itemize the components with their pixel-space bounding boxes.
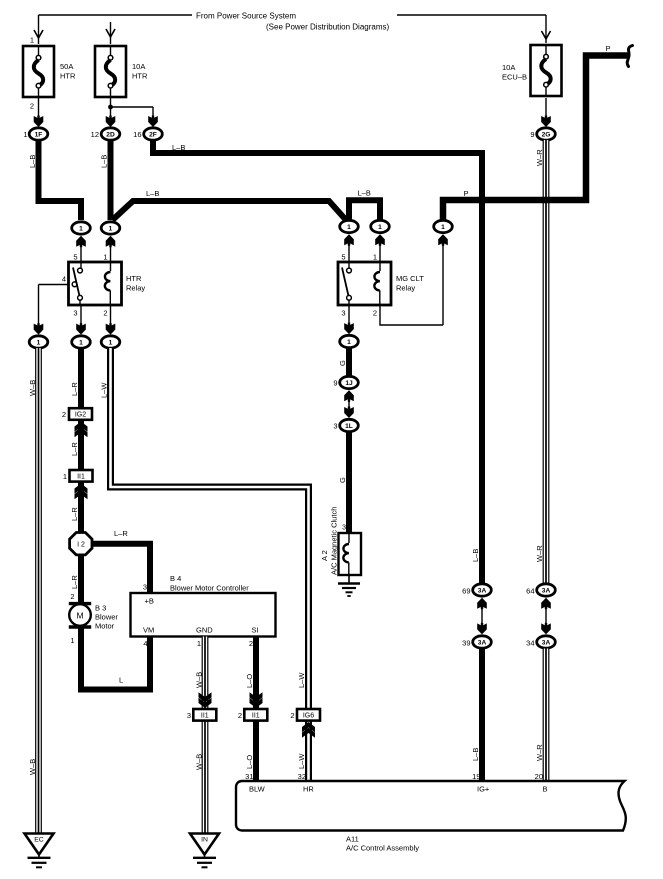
svg-text:Blower: Blower xyxy=(95,613,118,622)
svg-text:B 4: B 4 xyxy=(170,574,181,583)
svg-text:L–W: L–W xyxy=(100,382,109,398)
label P top xyxy=(605,44,610,53)
svg-text:P: P xyxy=(463,189,468,198)
svg-text:1: 1 xyxy=(373,253,377,262)
connector 2F pin 16 xyxy=(133,128,162,140)
wire W-R 34 to B xyxy=(535,545,546,781)
svg-text:1L: 1L xyxy=(345,423,353,430)
svg-text:B 3: B 3 xyxy=(95,604,106,613)
svg-text:GND: GND xyxy=(196,626,213,635)
svg-text:69: 69 xyxy=(462,587,470,596)
svg-text:A/C Control Assembly: A/C Control Assembly xyxy=(346,844,419,853)
svg-text:5: 5 xyxy=(73,253,77,262)
svg-text:W–R: W–R xyxy=(535,744,544,761)
wire L-R II1 to I2 xyxy=(70,482,81,534)
wire L blower motor to VM xyxy=(70,627,150,690)
wire L-R I2 to blower motor xyxy=(70,554,81,604)
wire HTR pin 2 stub xyxy=(110,305,112,332)
svg-text:HTR: HTR xyxy=(60,72,76,81)
wire L-W HTR to IG6 and HR xyxy=(100,348,309,781)
label From Power Source System xyxy=(196,12,296,21)
ground below magnetic clutch xyxy=(338,575,360,596)
wire L-B diagonal branch to MG CLT relay xyxy=(113,189,347,220)
wire W-R mid label xyxy=(0,0,1,1)
arrow into 1L xyxy=(344,407,354,419)
svg-text:G: G xyxy=(338,360,347,366)
svg-text:2: 2 xyxy=(70,592,74,601)
svg-text:W–R: W–R xyxy=(535,149,544,166)
arrow into connector 2D xyxy=(106,116,116,128)
connector 2G pin 9 xyxy=(530,128,555,140)
svg-text:9: 9 xyxy=(333,379,337,388)
node 1 to G wire xyxy=(340,335,359,347)
connector 64 3A xyxy=(526,584,555,596)
svg-text:Relay: Relay xyxy=(396,284,415,293)
wire W-B GND to ground IN xyxy=(195,637,206,834)
wire L-O SI to BLW xyxy=(245,637,256,782)
svg-text:II1: II1 xyxy=(77,473,85,480)
svg-text:I 2: I 2 xyxy=(77,542,85,549)
svg-text:1: 1 xyxy=(378,224,382,231)
wire HTR pin 3 stub xyxy=(80,305,82,332)
node 1 above HTR relay pin 1 xyxy=(101,222,120,262)
svg-text:10A: 10A xyxy=(132,62,145,71)
wire P from hook to MG CLT node xyxy=(443,56,629,221)
arrow into node G xyxy=(344,323,354,335)
svg-text:34: 34 xyxy=(526,639,534,648)
assembly A11 A/C Control Assembly xyxy=(236,781,626,853)
svg-text:2: 2 xyxy=(290,711,294,720)
svg-text:5: 5 xyxy=(341,253,345,262)
svg-text:1: 1 xyxy=(109,340,113,347)
label P at relay xyxy=(463,189,468,198)
arrow into 34 xyxy=(541,623,551,635)
header power source line right segment xyxy=(397,14,546,16)
svg-text:1: 1 xyxy=(441,224,445,231)
svg-text:L–B: L–B xyxy=(28,155,37,168)
fuse 10A HTR pin stub and junction xyxy=(108,97,113,121)
wire L-B from 2F to connector 69 xyxy=(153,140,482,585)
svg-text:P: P xyxy=(605,44,610,53)
node 1 above HTR relay pin 5 xyxy=(72,222,91,262)
svg-text:32: 32 xyxy=(298,772,306,781)
node 1 above MG CLT relay pin 1 xyxy=(371,220,390,262)
svg-text:1: 1 xyxy=(23,130,27,139)
arrow up into 64 xyxy=(541,598,551,610)
arrow into node W-B xyxy=(34,323,44,335)
arrow into junction II1 lower-left xyxy=(199,692,212,708)
controller B4 Blower Motor Controller xyxy=(131,574,276,637)
arrow up into II1 xyxy=(75,484,88,500)
svg-text:50A: 50A xyxy=(60,62,73,71)
svg-text:W–R: W–R xyxy=(535,545,544,562)
svg-text:2: 2 xyxy=(103,309,107,318)
node 1 for P wire xyxy=(434,220,453,325)
svg-text:II1: II1 xyxy=(252,712,260,719)
svg-text:W–B: W–B xyxy=(28,759,37,775)
svg-text:L–B: L–B xyxy=(100,155,109,168)
relay MG CLT xyxy=(338,253,424,318)
svg-text:IG2: IG2 xyxy=(75,412,86,419)
wire L-B 39 to IG+ xyxy=(471,549,482,781)
svg-text:SI: SI xyxy=(252,626,259,635)
svg-text:3: 3 xyxy=(187,711,191,720)
wire between 1J and 1L xyxy=(348,399,350,409)
wire G 1L to magnetic clutch xyxy=(338,432,349,533)
arrow into node L-W xyxy=(106,323,116,335)
arrow up into 69 xyxy=(477,598,487,610)
svg-text:4: 4 xyxy=(143,639,147,648)
junction II1 pin 2 xyxy=(238,709,267,721)
svg-text:L–O: L–O xyxy=(245,755,254,769)
svg-text:2: 2 xyxy=(62,410,66,419)
svg-text:2G: 2G xyxy=(542,132,551,139)
arrow into node L-R xyxy=(76,323,86,335)
wire MG CLT pin 2 to P node xyxy=(380,305,443,325)
connector 1J pin 9 xyxy=(333,376,358,388)
svg-text:L–R: L–R xyxy=(70,575,79,589)
svg-text:L: L xyxy=(119,676,123,685)
svg-text:MG CLT: MG CLT xyxy=(396,274,424,283)
ground EC xyxy=(25,834,54,868)
wire feed to fuse 50A with arrow xyxy=(30,15,43,45)
wire L-R IG2 to II1 xyxy=(70,420,81,470)
svg-text:IG+: IG+ xyxy=(477,785,490,794)
svg-text:W–B: W–B xyxy=(195,672,204,688)
svg-text:1F: 1F xyxy=(35,132,43,139)
arrow up into 1J xyxy=(344,390,354,402)
svg-text:L–R: L–R xyxy=(70,507,79,521)
junction IG2 pin 2 xyxy=(62,408,92,420)
svg-text:1: 1 xyxy=(63,472,67,481)
svg-text:W–B: W–B xyxy=(195,754,204,770)
junction IG6 pin 2 xyxy=(290,709,320,721)
fuse ECU-B pin stub xyxy=(545,98,547,121)
arrow into junction II1 lower-mid xyxy=(250,692,263,708)
svg-text:2D: 2D xyxy=(106,132,115,139)
svg-text:3: 3 xyxy=(342,525,346,532)
svg-text:9: 9 xyxy=(530,130,534,139)
ground IN xyxy=(190,834,219,868)
svg-text:3A: 3A xyxy=(542,640,551,647)
svg-text:M: M xyxy=(76,611,83,621)
fuse 50A pin 2 stub xyxy=(30,97,39,121)
svg-text:1: 1 xyxy=(347,339,351,346)
relay HTR xyxy=(62,253,146,318)
svg-text:Blower Motor Controller: Blower Motor Controller xyxy=(170,584,249,593)
junction II1 pin 1 xyxy=(63,470,93,482)
hook continuation symbol xyxy=(627,46,632,67)
svg-text:20: 20 xyxy=(535,772,543,781)
wire W-R from 2G down to connector 64 xyxy=(535,140,546,585)
svg-text:Relay: Relay xyxy=(126,284,145,293)
fuse 10A HTR xyxy=(95,46,148,97)
svg-text:L–B: L–B xyxy=(471,748,480,761)
label See Power Distribution Diagrams xyxy=(266,23,389,32)
svg-text:3A: 3A xyxy=(478,588,487,595)
wire feed to fuse 10A HTR with arrow xyxy=(106,22,115,44)
svg-text:BLW: BLW xyxy=(249,785,266,794)
svg-text:39: 39 xyxy=(462,639,470,648)
svg-text:3A: 3A xyxy=(542,588,551,595)
svg-text:3: 3 xyxy=(143,583,147,592)
svg-text:1: 1 xyxy=(70,636,74,645)
svg-text:3A: 3A xyxy=(478,640,487,647)
svg-text:1: 1 xyxy=(37,340,41,347)
svg-text:A/C Magnetic Clutch: A/C Magnetic Clutch xyxy=(330,507,339,575)
svg-text:HTR: HTR xyxy=(132,72,148,81)
svg-text:2F: 2F xyxy=(149,132,157,139)
svg-text:II1: II1 xyxy=(201,712,209,719)
svg-text:1: 1 xyxy=(30,36,34,45)
svg-text:10A: 10A xyxy=(502,63,515,72)
svg-text:EC: EC xyxy=(34,837,44,844)
svg-text:L–B: L–B xyxy=(358,189,371,198)
arrow into 39 xyxy=(477,623,487,635)
svg-text:+B: +B xyxy=(145,597,154,606)
node 1 to W-B wire xyxy=(29,336,48,348)
wire L-B from 1F to node 1 xyxy=(28,140,81,220)
svg-text:L–R: L–R xyxy=(114,529,128,538)
svg-text:W–B: W–B xyxy=(28,380,37,396)
svg-text:L–B: L–B xyxy=(172,143,185,152)
svg-text:IN: IN xyxy=(201,837,208,844)
svg-text:16: 16 xyxy=(133,130,141,139)
svg-text:2: 2 xyxy=(373,309,377,318)
connector 1L pin 3 xyxy=(333,419,358,431)
wire L-B from 2D to node 1 xyxy=(100,140,111,220)
wire L-B bridge over MG CLT relay xyxy=(349,189,380,221)
svg-text:1J: 1J xyxy=(345,380,353,387)
svg-text:3: 3 xyxy=(333,422,337,431)
junction II1 pin 3 xyxy=(187,709,216,721)
wire MG CLT pin 3 stub xyxy=(348,305,350,332)
svg-text:31: 31 xyxy=(245,772,253,781)
connector I2 xyxy=(70,533,92,555)
svg-text:(See Power Distribution Diagra: (See Power Distribution Diagrams) xyxy=(266,23,389,32)
svg-text:2: 2 xyxy=(238,711,242,720)
svg-text:1: 1 xyxy=(109,226,113,233)
node 1 to L-R wire xyxy=(72,336,91,348)
svg-text:B: B xyxy=(543,785,548,794)
wire HTR pin 4 to node xyxy=(39,285,69,333)
svg-text:12: 12 xyxy=(91,130,99,139)
svg-text:L–R: L–R xyxy=(70,442,79,456)
wire between 69 and 39 xyxy=(481,607,483,628)
svg-text:ECU–B: ECU–B xyxy=(502,73,527,82)
node 1 above MG CLT relay pin 5 xyxy=(340,220,359,262)
connector 34 3A xyxy=(526,636,555,648)
wire L-R I2 to +B xyxy=(91,529,150,593)
wire L-R node to IG2 xyxy=(70,348,81,408)
svg-text:4: 4 xyxy=(62,275,66,284)
svg-text:G: G xyxy=(338,477,347,483)
arrow into connector 1F xyxy=(34,116,44,128)
svg-text:HTR: HTR xyxy=(126,274,142,283)
fuse 50A HTR xyxy=(23,46,76,97)
svg-text:From Power Source System: From Power Source System xyxy=(196,12,296,21)
coil A2 A/C Magnetic Clutch xyxy=(339,533,362,575)
svg-text:2: 2 xyxy=(249,639,253,648)
arrow into connector 2F xyxy=(148,116,158,128)
svg-text:Motor: Motor xyxy=(95,622,115,631)
svg-text:L–W: L–W xyxy=(297,753,306,769)
node 1 to L-W wire xyxy=(101,336,120,348)
svg-text:A 2: A 2 xyxy=(320,550,329,561)
connector 2D pin 12 xyxy=(91,128,120,140)
svg-text:1: 1 xyxy=(347,224,351,231)
wire feed to fuse 10A ECU-B with arrow xyxy=(542,15,551,43)
svg-text:IG6: IG6 xyxy=(303,712,314,719)
wire G node to 1J xyxy=(338,348,349,377)
label A2 A/C Magnetic Clutch xyxy=(320,507,339,575)
svg-text:1: 1 xyxy=(79,226,83,233)
svg-text:64: 64 xyxy=(526,587,534,596)
arrow up into IG6 xyxy=(302,722,315,738)
svg-text:1: 1 xyxy=(197,639,201,648)
connector 1F pin 1 xyxy=(23,128,47,140)
svg-text:L–R: L–R xyxy=(70,382,79,396)
motor B3 Blower Motor xyxy=(69,604,119,631)
svg-text:L–W: L–W xyxy=(297,672,306,688)
wire W-B to ground EC xyxy=(28,348,39,833)
svg-text:19: 19 xyxy=(472,772,480,781)
fuse 10A ECU-B xyxy=(502,45,562,96)
connector 39 3A xyxy=(462,636,491,648)
svg-text:HR: HR xyxy=(303,785,314,794)
svg-text:2: 2 xyxy=(30,102,34,111)
svg-text:L–B: L–B xyxy=(146,189,159,198)
arrow into connector 2G xyxy=(541,116,551,128)
svg-text:A11: A11 xyxy=(346,835,359,844)
connector 69 3A xyxy=(462,584,491,596)
header power source line left segment xyxy=(39,14,193,16)
svg-text:VM: VM xyxy=(143,626,154,635)
svg-text:1: 1 xyxy=(79,340,83,347)
svg-text:3: 3 xyxy=(73,309,77,318)
svg-text:L–B: L–B xyxy=(471,549,480,562)
wire between 64 and 34 xyxy=(545,607,547,628)
svg-text:L–O: L–O xyxy=(245,674,254,688)
wire branch to connector 2F xyxy=(111,107,154,121)
svg-text:1: 1 xyxy=(103,253,107,262)
svg-text:3: 3 xyxy=(341,309,345,318)
arrow up into IG2 xyxy=(75,422,88,438)
